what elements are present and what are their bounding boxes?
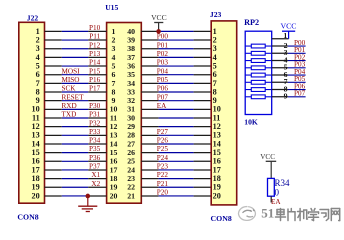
svg-text:23: 23 — [127, 174, 135, 183]
svg-text:9: 9 — [284, 92, 288, 101]
svg-text:18: 18 — [32, 174, 40, 183]
U15 pin 7 line — [88, 82, 106, 84]
svg-text:11: 11 — [32, 113, 40, 122]
wire J22-5 to U15-5 — [62, 65, 88, 67]
wire RP2-1 to VCC — [288, 31, 290, 39]
wire U15 right row 16 — [159, 160, 194, 162]
svg-text:P01: P01 — [157, 41, 169, 49]
svg-text:40: 40 — [127, 27, 135, 36]
RP2 resistor element 3 — [245, 60, 251, 62]
J22 pin 14 line — [45, 143, 62, 145]
J22 pin 3 line — [45, 48, 62, 50]
wire U15 right row 7 — [159, 82, 194, 84]
U15 pin 36 line — [141, 65, 158, 67]
J23 pin 20 line — [194, 195, 212, 197]
J23 pin 15 line — [194, 152, 212, 154]
svg-text:20: 20 — [110, 191, 118, 200]
svg-text:33: 33 — [127, 87, 135, 96]
svg-text:17: 17 — [110, 165, 118, 174]
svg-text:P03: P03 — [157, 59, 169, 67]
svg-text:9: 9 — [213, 96, 217, 105]
U15 pin 27 line — [141, 143, 158, 145]
U15 pin 11 line — [88, 117, 106, 119]
wire J22-6 to U15-6 — [62, 74, 88, 76]
wire RP2 pin 9 — [288, 96, 306, 98]
U15 pin 1 line — [88, 30, 106, 32]
J23 pin 4 line — [194, 56, 212, 58]
U15 pin 40 line — [141, 30, 158, 32]
IC U15 — [107, 23, 142, 204]
svg-text:MOSI: MOSI — [62, 67, 81, 75]
wire J22-1 to U15-1 — [62, 30, 88, 32]
RP2 resistor element 2 — [245, 52, 251, 54]
wire J22-7 to U15-7 — [62, 82, 88, 84]
watermark logo — [239, 207, 256, 221]
svg-text:P00: P00 — [157, 33, 169, 41]
wire U15 right row 4 — [159, 56, 194, 58]
svg-text:15: 15 — [110, 148, 118, 157]
svg-text:14: 14 — [32, 139, 40, 148]
svg-text:CON8: CON8 — [211, 214, 232, 223]
J22 pin 12 line — [45, 126, 62, 128]
svg-text:26: 26 — [127, 148, 135, 157]
J23 pin 14 line — [194, 143, 212, 145]
J22 pin 4 line — [45, 56, 62, 58]
svg-text:P25: P25 — [157, 145, 169, 153]
J23 pin 13 line — [194, 134, 212, 136]
svg-text:7: 7 — [112, 79, 116, 88]
wire J22-14 to U15-14 — [62, 143, 88, 145]
svg-text:10: 10 — [213, 105, 221, 114]
U15 pin 25 line — [141, 160, 158, 162]
svg-text:TXD: TXD — [62, 111, 77, 119]
wire J22-8 to U15-8 — [62, 91, 88, 93]
RP2 pin 6 line — [272, 74, 288, 76]
U15 pin 22 line — [141, 186, 158, 188]
J22 pin 20 line — [45, 195, 62, 197]
wire J22-9 to U15-9 — [62, 100, 88, 102]
svg-text:31: 31 — [127, 105, 135, 114]
wire U15 right row 13 — [159, 134, 194, 136]
svg-text:J23: J23 — [210, 10, 222, 19]
U15 pin 38 line — [141, 48, 158, 50]
svg-text:15: 15 — [32, 148, 40, 157]
svg-text:13: 13 — [110, 131, 118, 140]
J23 pin 19 line — [194, 186, 212, 188]
wire U15 right row 6 — [159, 74, 194, 76]
svg-text:P07: P07 — [157, 93, 169, 101]
svg-text:17: 17 — [213, 165, 221, 174]
J22 pin 2 line — [45, 39, 62, 41]
U15 pin 28 line — [141, 134, 158, 136]
J22 pin 18 line — [45, 178, 62, 180]
U15 pin 9 line — [88, 100, 106, 102]
RP2 resistor element 7 — [245, 89, 251, 91]
wire R34 to EA — [270, 196, 272, 202]
wire J22-20 to U15-20 — [62, 195, 88, 197]
svg-text:VCC: VCC — [151, 13, 167, 22]
wire J22-17 to U15-17 — [62, 169, 88, 171]
svg-text:5: 5 — [36, 61, 40, 70]
U15 pin 2 line — [88, 39, 106, 41]
wire J22-10 to U15-10 — [62, 108, 88, 110]
svg-text:P26: P26 — [157, 137, 169, 145]
wire RP2 pin 6 — [288, 74, 306, 76]
svg-text:29: 29 — [127, 122, 135, 131]
J23 pin 12 line — [194, 126, 212, 128]
svg-text:19: 19 — [213, 183, 221, 192]
wire U15 right row 20 — [159, 195, 194, 197]
svg-text:27: 27 — [127, 139, 135, 148]
U15 pin 5 line — [88, 65, 106, 67]
svg-text:21: 21 — [127, 191, 135, 200]
svg-text:18: 18 — [213, 174, 221, 183]
wire J22-13 to U15-13 — [62, 134, 88, 136]
RP2 pin 1 line — [272, 38, 289, 40]
svg-text:12: 12 — [110, 122, 118, 131]
wire U15 right row 11 — [159, 117, 194, 119]
U15 pin 26 line — [141, 152, 158, 154]
U15 pin 19 line — [88, 186, 106, 188]
J23 pin 17 line — [194, 169, 212, 171]
U15 pin 34 line — [141, 82, 158, 84]
svg-text:2: 2 — [213, 35, 217, 44]
svg-text:16: 16 — [32, 157, 40, 166]
svg-text:P20: P20 — [157, 189, 169, 197]
connector J23 — [211, 21, 237, 205]
U15 pin 4 line — [88, 56, 106, 58]
J23 pin 18 line — [194, 178, 212, 180]
svg-text:P22: P22 — [157, 171, 169, 179]
wire J22-2 to U15-2 — [62, 39, 88, 41]
RP2 pin 5 line — [272, 67, 288, 69]
J23 pin 6 line — [194, 74, 212, 76]
J22 pin 19 line — [45, 186, 62, 188]
svg-text:18: 18 — [110, 174, 118, 183]
wire U15 right row 12 — [159, 126, 194, 128]
RP2 pin 4 line — [272, 60, 288, 62]
wire U15 right row 2 — [159, 39, 194, 41]
RP2 pin 8 line — [272, 89, 288, 91]
svg-text:EA: EA — [157, 102, 167, 110]
RP2 pin 3 line — [272, 52, 288, 54]
U15 pin 21 line — [141, 195, 158, 197]
svg-text:2: 2 — [36, 35, 40, 44]
wire U15 right row 14 — [159, 143, 194, 145]
svg-text:25: 25 — [127, 157, 135, 166]
svg-text:22: 22 — [127, 183, 135, 192]
svg-text:VCC: VCC — [260, 153, 275, 161]
U15 pin 18 line — [88, 178, 106, 180]
connector J22 — [19, 22, 45, 203]
J23 pin 9 line — [194, 100, 212, 102]
svg-text:35: 35 — [127, 70, 135, 79]
J23 pin 11 line — [194, 117, 212, 119]
svg-text:34: 34 — [127, 79, 135, 88]
U15 pin 23 line — [141, 178, 158, 180]
J23 pin 7 line — [194, 82, 212, 84]
J23 pin 3 line — [194, 48, 212, 50]
J22 pin 11 line — [45, 117, 62, 119]
J22 pin 17 line — [45, 169, 62, 171]
wire J22-19 to U15-19 — [62, 186, 88, 188]
wire U15 right row 3 — [159, 48, 194, 50]
U15 pin 37 line — [141, 56, 158, 58]
svg-text:6: 6 — [36, 70, 40, 79]
svg-text:39: 39 — [127, 35, 135, 44]
RP2 pin 9 line — [272, 96, 288, 98]
U15 pin 29 line — [141, 126, 158, 128]
svg-text:P04: P04 — [157, 67, 169, 75]
U15 pin 14 line — [88, 143, 106, 145]
U15 pin 30 line — [141, 117, 158, 119]
wire J22-12 to U15-12 — [62, 126, 88, 128]
svg-text:RXD: RXD — [62, 102, 77, 110]
RP2 resistor element 6 — [245, 81, 251, 83]
wire J22-4 to U15-4 — [62, 56, 88, 58]
svg-text:28: 28 — [127, 131, 135, 140]
U15 pin 20 line — [88, 195, 106, 197]
svg-text:P02: P02 — [157, 50, 169, 58]
RP2 pin 2 line — [272, 45, 288, 47]
U15 pin 15 line — [88, 152, 106, 154]
svg-text:P24: P24 — [157, 154, 169, 162]
U15 pin 6 line — [88, 74, 106, 76]
RP2 resistor element 1 — [245, 45, 251, 47]
J23 pin 8 line — [194, 91, 212, 93]
svg-text:VCC: VCC — [280, 21, 296, 30]
svg-text:6: 6 — [112, 70, 116, 79]
svg-text:11: 11 — [110, 113, 117, 122]
wire U15 right row 5 — [159, 65, 194, 67]
J22 pin 1 line — [45, 30, 62, 32]
svg-text:1: 1 — [36, 27, 40, 36]
wire J22-11 to U15-11 — [62, 117, 88, 119]
svg-text:7: 7 — [213, 79, 217, 88]
svg-text:3: 3 — [112, 44, 116, 53]
ground symbol — [87, 196, 89, 206]
watermark hanzi 单片机学习网 — [276, 209, 340, 221]
wire RP2 pin 8 — [288, 89, 306, 91]
svg-text:20: 20 — [213, 191, 221, 200]
wire RP2 pin 2 — [288, 45, 306, 47]
wire U15 right row 17 — [159, 169, 194, 171]
svg-text:12: 12 — [213, 122, 221, 131]
J22 pin 15 line — [45, 152, 62, 154]
wire U15 right row 15 — [159, 152, 194, 154]
U15 pin 12 line — [88, 126, 106, 128]
svg-text:5: 5 — [213, 61, 217, 70]
svg-text:P21: P21 — [157, 180, 169, 188]
wire J22-15 to U15-15 — [62, 152, 88, 154]
svg-text:4: 4 — [112, 53, 116, 62]
power VCC RP2 — [282, 30, 295, 32]
U15 pin 35 line — [141, 74, 158, 76]
svg-text:9: 9 — [36, 96, 40, 105]
U15 pin 39 line — [141, 39, 158, 41]
svg-text:10K: 10K — [244, 117, 258, 126]
svg-text:3: 3 — [36, 44, 40, 53]
wire J22-18 to U15-18 — [62, 178, 88, 180]
svg-text:9: 9 — [112, 96, 116, 105]
J22 pin 5 line — [45, 65, 62, 67]
J22 pin 9 line — [45, 100, 62, 102]
wire U15 right row 19 — [159, 186, 194, 188]
svg-text:RP2: RP2 — [244, 18, 259, 27]
RP2 pin 7 line — [272, 81, 288, 83]
U15 pin 17 line — [88, 169, 106, 171]
U15 pin 16 line — [88, 160, 106, 162]
wire U15 right row 10 — [159, 108, 194, 110]
svg-text:10: 10 — [32, 105, 40, 114]
U15 pin 13 line — [88, 134, 106, 136]
svg-text:19: 19 — [32, 183, 40, 192]
RP2 resistor element 8 — [245, 96, 251, 98]
wire U15 right row 8 — [159, 91, 194, 93]
wire U15 right row 1 — [159, 30, 194, 32]
U15 pin 8 line — [88, 91, 106, 93]
svg-text:14: 14 — [110, 139, 118, 148]
wire RP2 pin 3 — [288, 52, 306, 54]
U15 pin 31 line — [141, 108, 158, 110]
J22 pin 7 line — [45, 82, 62, 84]
svg-text:5: 5 — [112, 61, 116, 70]
svg-text:16: 16 — [213, 157, 221, 166]
svg-text:20: 20 — [32, 191, 40, 200]
J22 pin 6 line — [45, 74, 62, 76]
J23 pin 10 line — [194, 108, 212, 110]
svg-text:8: 8 — [112, 87, 116, 96]
svg-text:P27: P27 — [157, 128, 169, 136]
svg-text:CON8: CON8 — [17, 213, 38, 222]
J23 pin 2 line — [194, 39, 212, 41]
svg-text:24: 24 — [127, 165, 135, 174]
svg-text:19: 19 — [110, 183, 118, 192]
U15 pin 10 line — [88, 108, 106, 110]
svg-text:37: 37 — [127, 53, 135, 62]
svg-text:14: 14 — [213, 139, 221, 148]
J23 pin 1 line — [194, 30, 212, 32]
J22 pin 8 line — [45, 91, 62, 93]
resistor R34 — [268, 178, 275, 196]
U15 pin 32 line — [141, 100, 158, 102]
svg-text:13: 13 — [32, 131, 40, 140]
svg-text:51: 51 — [261, 206, 274, 221]
svg-text:U15: U15 — [105, 3, 118, 12]
svg-text:P07: P07 — [294, 90, 306, 98]
svg-text:3: 3 — [213, 44, 217, 53]
U15 pin 3 line — [88, 48, 106, 50]
svg-text:P05: P05 — [157, 76, 169, 84]
resistor pack RP2 — [245, 31, 272, 114]
U15 pin 24 line — [141, 169, 158, 171]
svg-text:6: 6 — [213, 70, 217, 79]
svg-text:0: 0 — [275, 187, 280, 197]
svg-text:8: 8 — [36, 87, 40, 96]
wire RP2 pin 4 — [288, 60, 306, 62]
svg-text:38: 38 — [127, 44, 135, 53]
svg-text:4: 4 — [213, 53, 217, 62]
svg-text:1: 1 — [112, 27, 116, 36]
J22 pin 16 line — [45, 160, 62, 162]
svg-text:8: 8 — [213, 87, 217, 96]
svg-text:MISO: MISO — [62, 76, 80, 84]
svg-text:RESET: RESET — [62, 93, 85, 101]
svg-text:10: 10 — [110, 105, 118, 114]
svg-text:7: 7 — [36, 79, 40, 88]
RP2 resistor element 5 — [245, 74, 251, 76]
svg-text:32: 32 — [127, 96, 135, 105]
RP2 resistor element 4 — [245, 67, 251, 69]
wire U15 right row 9 — [159, 100, 194, 102]
svg-text:P06: P06 — [157, 85, 169, 93]
svg-text:11: 11 — [213, 113, 221, 122]
junction GND pin20 — [86, 194, 91, 199]
J22 pin 13 line — [45, 134, 62, 136]
wire U15 right row 18 — [159, 178, 194, 180]
svg-text:1: 1 — [213, 27, 217, 36]
J22 pin 10 line — [45, 108, 62, 110]
svg-text:SCK: SCK — [62, 85, 77, 93]
svg-text:30: 30 — [127, 113, 135, 122]
svg-text:16: 16 — [110, 157, 118, 166]
J23 pin 16 line — [194, 160, 212, 162]
wire J22-16 to U15-16 — [62, 160, 88, 162]
svg-text:12: 12 — [32, 122, 40, 131]
J23 pin 5 line — [194, 65, 212, 67]
svg-text:J22: J22 — [27, 13, 39, 22]
svg-text:13: 13 — [213, 131, 221, 140]
svg-text:2: 2 — [112, 35, 116, 44]
svg-text:36: 36 — [127, 61, 135, 70]
svg-text:15: 15 — [213, 148, 221, 157]
wire VCC to R34 — [270, 161, 272, 178]
wire J22-3 to U15-3 — [62, 48, 88, 50]
svg-text:4: 4 — [36, 53, 40, 62]
junction VCC pin40 — [156, 29, 161, 34]
svg-text:P23: P23 — [157, 163, 169, 171]
svg-text:17: 17 — [32, 165, 40, 174]
svg-text:1: 1 — [283, 31, 287, 40]
wire RP2 pin 5 — [288, 67, 306, 69]
U15 pin 33 line — [141, 91, 158, 93]
wire RP2 pin 7 — [288, 81, 306, 83]
